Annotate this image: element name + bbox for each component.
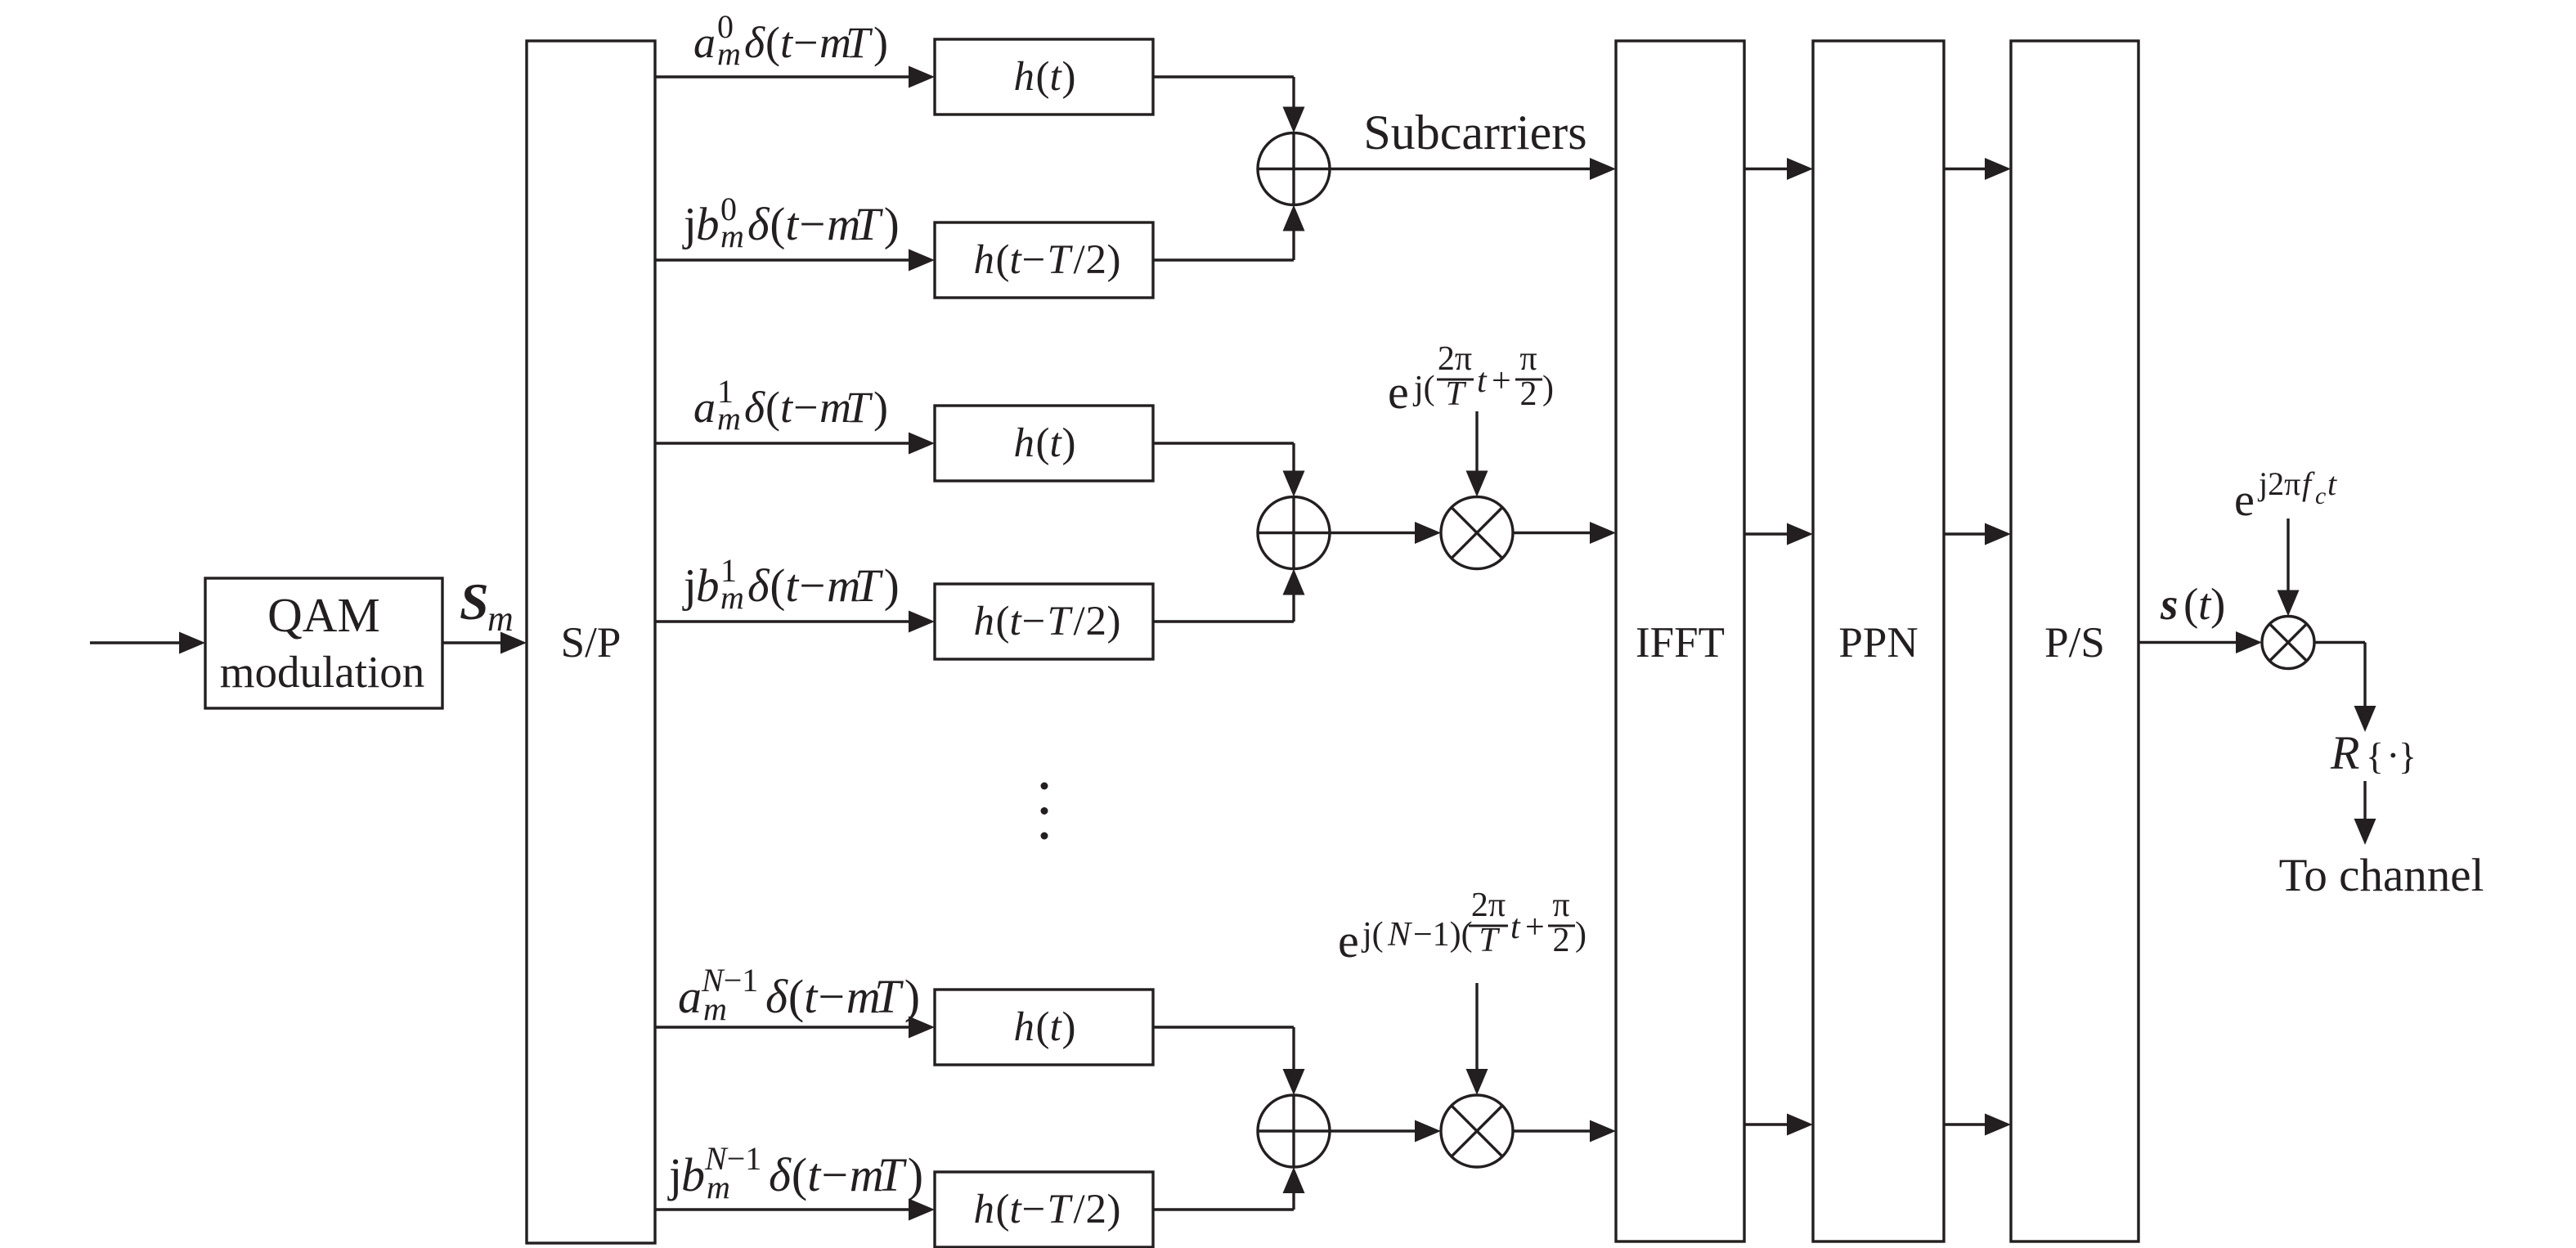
node exponential label e^j(N-1)(2pi/T t + pi/2): [1338, 887, 1586, 967]
wire S/P branch 3b arrow: [655, 1199, 935, 1221]
svg-text:j: j: [667, 1148, 682, 1201]
svg-text:(: (: [770, 199, 785, 250]
svg-text:m: m: [720, 218, 744, 254]
filter block h 2a: [935, 406, 1153, 481]
node branch label 2b: [682, 552, 900, 616]
svg-text:(: (: [996, 237, 1010, 283]
svg-text:(: (: [996, 599, 1010, 644]
filter block h 3a: [935, 990, 1153, 1065]
filter block h 2b: [935, 584, 1153, 659]
svg-text:): ): [1542, 370, 1554, 407]
svg-text:(: (: [1036, 420, 1050, 466]
svg-text:h: h: [1014, 1004, 1035, 1050]
svg-text:+: +: [1525, 909, 1545, 946]
svg-text:t: t: [780, 18, 794, 67]
svg-text:j(: j(: [1361, 916, 1384, 954]
svg-text:s: s: [2160, 579, 2178, 629]
svg-text:(: (: [996, 1187, 1010, 1232]
node exponential label e^j2pi fc t: [2234, 465, 2337, 526]
node To channel label: [2279, 850, 2484, 901]
svg-text:π: π: [1519, 340, 1537, 378]
node branch label 3b: [667, 1140, 923, 1205]
svg-text:): ): [1062, 54, 1076, 100]
adder A2 circle-plus: [1258, 497, 1330, 569]
svg-text:−: −: [793, 383, 818, 432]
svg-text:t: t: [780, 383, 794, 432]
svg-text:b: b: [681, 1148, 705, 1201]
svg-text:−: −: [1022, 237, 1046, 283]
node branch label 1b: [682, 191, 900, 254]
svg-text:): ): [1575, 916, 1586, 954]
node branch label 3a: [678, 962, 920, 1027]
svg-text:QAM: QAM: [267, 588, 380, 642]
svg-text:): ): [884, 560, 900, 612]
wire PPN to P/S row 1: [1944, 158, 2011, 180]
svg-text:−: −: [799, 199, 825, 250]
svg-text:2: 2: [1086, 599, 1107, 644]
svg-text:m: m: [717, 400, 741, 437]
svg-text:): ): [873, 18, 888, 67]
svg-text:m: m: [487, 599, 514, 639]
svg-text:t: t: [2327, 465, 2337, 502]
svg-text:t: t: [785, 199, 799, 250]
svg-text:h: h: [974, 237, 995, 283]
wire IFFT to PPN row 1: [1744, 158, 1813, 180]
svg-text:T: T: [846, 18, 873, 67]
IFFT block: [1616, 41, 1744, 1241]
wire output multiplier to R{.}: [2314, 643, 2376, 733]
wire S/P branch 1b arrow: [655, 249, 935, 272]
svg-text:(: (: [792, 1148, 807, 1201]
svg-text:(: (: [765, 18, 780, 67]
svg-text:a: a: [693, 18, 716, 67]
svg-text:/: /: [1074, 1187, 1086, 1232]
node R{.} real-part operator: [2330, 726, 2417, 779]
svg-text:N: N: [1387, 916, 1412, 954]
svg-text:δ: δ: [747, 199, 770, 250]
wire h(t) 3a output to adder A3: [1153, 1027, 1305, 1095]
svg-text:): ): [904, 970, 920, 1023]
svg-text:m: m: [703, 990, 727, 1027]
svg-text:PPN: PPN: [1838, 619, 1918, 667]
svg-text:): ): [873, 383, 888, 432]
svg-text:−: −: [1022, 599, 1046, 644]
svg-text:m: m: [717, 35, 741, 72]
svg-text:b: b: [696, 560, 720, 612]
svg-text:T: T: [1048, 237, 1074, 283]
svg-text:e: e: [2234, 475, 2255, 526]
vertical ellipsis dots: [1041, 783, 1048, 840]
svg-text:2: 2: [1553, 922, 1570, 959]
wire IFFT to PPN row 2: [1744, 523, 1813, 545]
svg-text:2π: 2π: [1438, 340, 1472, 378]
svg-text:/: /: [1074, 599, 1086, 644]
svg-text:δ: δ: [744, 18, 765, 67]
svg-text:S: S: [460, 572, 489, 631]
wire S/P branch 2a arrow: [655, 433, 935, 455]
node exponential label e^j(2pi/T t + pi/2): [1388, 340, 1554, 419]
svg-text:T: T: [1048, 1187, 1074, 1232]
svg-text:−: −: [818, 970, 845, 1023]
wire adder A3 to multiplier M3: [1330, 1120, 1441, 1143]
wire PPN to P/S row 3: [1944, 1114, 2011, 1136]
wire IFFT to PPN row 3: [1744, 1114, 1813, 1136]
wire h(t) 2a output to adder A2: [1153, 443, 1305, 497]
svg-text:j: j: [682, 560, 697, 612]
svg-text:h: h: [974, 599, 995, 644]
filter block h 1b: [935, 222, 1153, 298]
svg-text:2: 2: [1520, 375, 1537, 413]
filter block h 1a: [935, 39, 1153, 114]
svg-text:−: −: [793, 18, 818, 67]
svg-text:t: t: [1477, 362, 1488, 400]
multiplier M2 circle-times: [1441, 497, 1513, 569]
output multiplier M4 circle-times: [2262, 617, 2314, 669]
svg-text:δ: δ: [747, 560, 770, 612]
node s(t) label: [2160, 579, 2225, 629]
wire h(t-T/2) 1b output to adder A1: [1153, 205, 1305, 261]
svg-text:j: j: [682, 199, 697, 250]
multiplier M3 circle-times: [1441, 1095, 1513, 1167]
svg-text:−: −: [821, 1148, 848, 1201]
svg-text:t: t: [1050, 420, 1063, 466]
wire exponential into multiplier M2: [1466, 411, 1488, 497]
node Subcarriers label: [1363, 105, 1586, 159]
svg-text:−: −: [799, 560, 825, 612]
svg-text:): ): [1107, 1187, 1121, 1232]
svg-text:t: t: [1050, 54, 1063, 100]
svg-text:): ): [1107, 237, 1121, 283]
wire R{.} to channel: [2354, 781, 2376, 845]
wire adder A1 output Subcarriers to IFFT: [1330, 158, 1616, 180]
svg-text:h: h: [1014, 420, 1035, 466]
svg-text:δ: δ: [765, 970, 788, 1023]
svg-text:modulation: modulation: [220, 647, 425, 697]
svg-text:t: t: [785, 560, 799, 612]
svg-text:t: t: [1010, 599, 1023, 644]
svg-text:T: T: [1445, 375, 1466, 413]
svg-text:T: T: [846, 383, 873, 432]
svg-text:m: m: [707, 1169, 730, 1205]
P/S block: [2011, 41, 2138, 1241]
wire P/S output s(t) to output multiplier: [2138, 631, 2262, 653]
svg-text:): ): [1062, 1004, 1076, 1050]
svg-text:To channel: To channel: [2279, 850, 2484, 901]
svg-text:Subcarriers: Subcarriers: [1363, 105, 1586, 159]
svg-text:δ: δ: [769, 1148, 792, 1201]
node branch label 2a: [693, 373, 888, 437]
svg-text:(: (: [1036, 54, 1050, 100]
wire S/P branch 3a arrow: [655, 1017, 935, 1039]
svg-text:{: {: [2366, 735, 2384, 777]
wire h(t) 1a output to adder A1: [1153, 77, 1305, 133]
svg-text:h: h: [974, 1187, 995, 1232]
svg-text:2π: 2π: [1471, 887, 1506, 924]
svg-text:(: (: [788, 970, 804, 1023]
wire S/P branch 2b arrow: [655, 611, 935, 633]
svg-text:c: c: [2315, 483, 2326, 510]
wire h(t-T/2) 2b output to adder A2: [1153, 569, 1305, 622]
svg-text:t: t: [1010, 237, 1023, 283]
svg-text:2: 2: [1086, 237, 1107, 283]
svg-text:T: T: [877, 1148, 907, 1201]
svg-text:): ): [884, 199, 900, 250]
svg-text:T: T: [855, 560, 884, 612]
QAM modulation block: [205, 578, 442, 708]
svg-text:t: t: [807, 1148, 822, 1201]
wire h(t-T/2) 3b output to adder A3: [1153, 1167, 1305, 1210]
wire input arrow into QAM: [90, 632, 205, 654]
svg-text:+: +: [1492, 362, 1511, 400]
adder A1 circle-plus: [1258, 133, 1330, 205]
svg-text:j(: j(: [1412, 370, 1435, 407]
svg-text:(: (: [2183, 579, 2198, 629]
S/P serial-to-parallel block: [527, 41, 655, 1243]
svg-text:S/P: S/P: [561, 619, 622, 667]
filter block h 3b: [935, 1172, 1153, 1247]
svg-text:T: T: [874, 970, 904, 1023]
svg-text:(: (: [770, 560, 785, 612]
svg-text:(: (: [1036, 1004, 1050, 1050]
wire adder A2 to multiplier M2: [1330, 522, 1441, 544]
wire S/P branch 1a arrow: [655, 66, 935, 88]
svg-text:P/S: P/S: [2044, 619, 2105, 667]
svg-text:}: }: [2399, 735, 2417, 777]
svg-text:e: e: [1338, 914, 1359, 967]
wire multiplier M2 to IFFT: [1513, 522, 1616, 544]
svg-text:t: t: [1010, 1187, 1023, 1232]
svg-text:(: (: [765, 383, 780, 432]
svg-text:a: a: [693, 383, 716, 432]
svg-text:2: 2: [1086, 1187, 1107, 1232]
wire QAM to S/P with Sm label: [442, 632, 527, 654]
svg-text:T: T: [1048, 599, 1074, 644]
svg-text:−: −: [1022, 1187, 1046, 1232]
svg-text:IFFT: IFFT: [1636, 619, 1725, 667]
svg-text:π: π: [1552, 887, 1569, 924]
svg-text:T: T: [1479, 922, 1500, 959]
wire multiplier M3 to IFFT: [1513, 1120, 1616, 1143]
svg-text:): ): [1062, 420, 1076, 466]
svg-text:): ): [908, 1148, 923, 1201]
svg-text:m: m: [720, 579, 744, 616]
svg-text:t: t: [804, 970, 819, 1023]
svg-text:h: h: [1014, 54, 1035, 100]
wire PPN to P/S row 2: [1944, 523, 2011, 545]
svg-text:R: R: [2330, 726, 2359, 779]
svg-text:a: a: [678, 970, 702, 1023]
wire exponential into multiplier M3: [1466, 983, 1488, 1095]
node branch label 1a: [693, 8, 888, 72]
svg-text:b: b: [696, 199, 720, 250]
svg-text:δ: δ: [744, 383, 765, 432]
adder A3 circle-plus: [1258, 1095, 1330, 1167]
svg-text:T: T: [855, 199, 884, 250]
svg-text:e: e: [1388, 366, 1409, 419]
svg-text:): ): [2210, 579, 2225, 629]
svg-text:/: /: [1074, 237, 1086, 283]
svg-text:−1)(: −1)(: [1413, 916, 1473, 954]
svg-text:j2π: j2π: [2257, 465, 2300, 502]
svg-text:t: t: [1510, 909, 1521, 946]
wire carrier exponential into output multiplier: [2278, 519, 2300, 617]
PPN block: [1813, 41, 1944, 1241]
node Sm label: [460, 572, 514, 639]
svg-text:t: t: [1050, 1004, 1063, 1050]
svg-text:): ): [1107, 599, 1121, 644]
